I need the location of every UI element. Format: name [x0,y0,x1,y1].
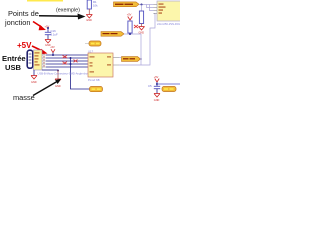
wire bus vertical [71,58,91,89]
ERC marker on ID [63,62,68,65]
pin stubs U2 [154,5,158,14]
wire shield [42,69,58,71]
svg-text:GND: GND [55,85,61,88]
svg-text:+5V: +5V [50,46,55,49]
wire +5V to C5 [156,82,158,86]
wire R1 bottom [88,9,90,15]
wire riser to label E [140,34,142,65]
wire C16 top [47,28,49,33]
svg-text:Points de: Points de [8,9,39,18]
yellow highlight bar top [27,0,63,2]
ERC marker near R3 [134,25,138,28]
pin stubs J1 [42,55,46,67]
pin stub U1 P+ [113,57,119,59]
node junction ID [70,63,72,65]
wire R3 top [141,5,143,12]
svg-text:jonction: jonction [4,18,30,27]
wire branch to U2 pin 3 [150,5,154,11]
svg-text:+5V: +5V [17,41,32,50]
black arrow to R1 junction [39,14,86,20]
resistor R2 [128,21,132,33]
svg-text:masse: masse [13,93,35,102]
resistor R3 [139,11,143,24]
wire RESET to U2 [139,4,154,6]
wire C5 row to right edge [157,83,180,85]
wire ID [46,63,88,65]
net label VCC (bottom right) [162,87,176,92]
net label D+ (right of U1) [122,57,141,62]
op-amp U2 memory IC body [157,1,183,21]
pin names U1 [90,56,112,72]
ground (shield) [55,79,61,83]
node junction above C16 [47,27,49,29]
pin stub U1 P- [113,64,119,66]
node label E tip junction [140,58,142,60]
ground (R3) [139,27,145,31]
pin names J1 [35,52,40,65]
capacitor C16 [45,32,51,34]
net label NC (mid small) [85,41,101,46]
pin numbers J1 [43,53,44,66]
node shield junction [57,70,59,72]
wire branch to U2 pin 2 [147,5,154,8]
svg-text:0.1uF: 0.1uF [51,33,58,37]
wire +5V flag to VBUS [52,53,54,55]
resistor R1 (example column) [87,0,91,9]
svg-text:Pmod NB: Pmod NB [88,78,100,82]
svg-text:U1?: U1? [88,50,94,54]
svg-text:GND: GND [31,81,37,84]
pin names U2 [159,4,166,14]
ground (USB body) [33,70,35,76]
svg-text:USB: USB [5,63,22,72]
svg-text:Entrée: Entrée [2,54,26,63]
net label GND bus (bottom) [90,87,103,92]
node junction D- [70,57,72,59]
wire U1 P+ to label [119,57,122,59]
red arrow to USB pin 1 [32,46,48,54]
svg-text:GND: GND [86,19,92,22]
svg-text:GND: GND [139,32,145,35]
svg-text:C5: C5 [148,84,152,88]
wire shield to ground [57,70,59,79]
wire VBUS [46,54,88,56]
connector J1 USB receptacle body [27,50,33,68]
svg-text:+5V: +5V [154,76,159,79]
connector J1 pin box [34,50,43,70]
node junction C5 top [156,83,158,85]
ERC marker on D+ [74,60,78,63]
wire C5 bottom [156,89,158,94]
capacitor C5 [154,86,160,88]
wire label DTR to riser [124,33,141,35]
wire C16 bottom [47,35,49,40]
svg-text:24LC256-I/SN-ROHS: 24LC256-I/SN-ROHS [157,22,180,26]
wire D+ [46,60,88,62]
black arrow masse to shield ground [33,79,61,96]
svg-text:10k: 10k [93,4,98,8]
wire R3 bottom [141,24,143,27]
node VBUS junction [52,54,54,56]
wire GND [46,66,88,68]
net label DTR (mid) [101,32,124,37]
svg-text:(exemple): (exemple) [56,8,80,14]
svg-text:GND: GND [154,99,160,102]
op-amp U1 USB interface IC body [88,53,113,77]
wire U1 P- to right riser [119,14,155,66]
svg-text:USB-B-Micro-Connecteur-SMD-Ang: USB-B-Micro-Connecteur-SMD-Angle-droit [38,72,89,76]
wire D- [46,57,88,59]
node junction RESET/R3 [141,4,143,6]
net label RESET (top) [114,2,140,7]
red arrow to junction above C16 [33,22,46,31]
ERC marker on D- [63,55,68,58]
svg-text:+5V: +5V [127,13,132,17]
ground (below R1) [86,15,92,19]
node junction R2 bottom [129,33,131,35]
ground (C5) [154,94,160,98]
ground (below C16) [45,40,51,44]
